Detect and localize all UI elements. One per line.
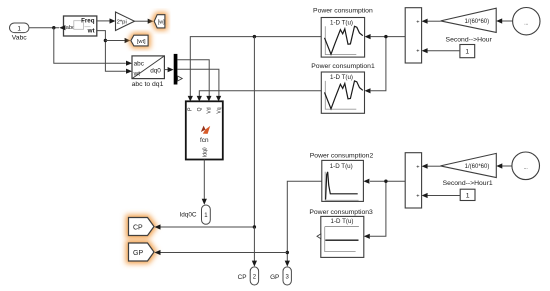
wire: CP vertical <box>253 37 255 227</box>
wire: sum1 output to lookups <box>370 37 405 91</box>
svg-text:GP: GP <box>133 250 143 257</box>
wire: constant2 to sum2 <box>427 195 460 197</box>
gain 1/(60*60) top <box>441 8 497 32</box>
output port 3 GP <box>270 267 291 285</box>
svg-text:wt: wt <box>87 28 95 35</box>
svg-text:+: + <box>416 164 419 170</box>
wire: lookup1 output to fcn P, with CP branch <box>190 37 321 97</box>
wire: demux out1 to fcn Vd <box>177 60 209 96</box>
highlight glow for goto [w] <box>154 15 165 28</box>
wire: 2*pi to [w] tag <box>135 20 149 22</box>
wire: fcn out to port 1 <box>203 160 205 200</box>
goto tag CP <box>129 218 155 236</box>
svg-text:1-D T(u): 1-D T(u) <box>330 19 353 26</box>
svg-text:+: + <box>416 194 419 200</box>
wire: GP net from lookup3 output <box>287 181 322 261</box>
svg-text:Power consumption3: Power consumption3 <box>309 209 373 216</box>
wire: dq0 out to demux <box>164 69 168 71</box>
clock block (bottom) <box>512 152 540 180</box>
svg-text:1: 1 <box>466 193 470 200</box>
node: lookup input junction top <box>384 35 387 38</box>
svg-text:Idq0C: Idq0C <box>179 212 196 219</box>
wire: gain2 to sum2 <box>427 165 440 167</box>
wire: gain1 to sum1 <box>427 20 440 22</box>
sum block 1 <box>405 8 427 63</box>
svg-text:[w]: [w] <box>158 19 165 25</box>
highlight glow for goto CP <box>129 218 155 236</box>
svg-text:1/(60*60): 1/(60*60) <box>464 19 489 25</box>
wire: sum2 output to lookups <box>370 181 405 236</box>
node: lookup input junction bottom <box>384 180 387 183</box>
svg-text:abc: abc <box>134 60 145 67</box>
sum block 2 <box>405 153 427 208</box>
svg-text:dq0: dq0 <box>150 68 161 75</box>
lookup table Power consumption2 <box>310 152 374 201</box>
node: Vabc junction <box>52 26 55 29</box>
wire: GP horizontal to tag <box>160 252 287 254</box>
abc to dq1 transform block <box>126 56 164 88</box>
wire: constant1 to sum1 <box>427 50 460 52</box>
svg-text:+: + <box>416 19 419 25</box>
highlight glow for goto GP <box>129 243 155 261</box>
input port 1 Vabc <box>10 23 30 42</box>
svg-text:Vabc: Vabc <box>12 35 28 42</box>
svg-text:1-D T(u): 1-D T(u) <box>330 163 353 170</box>
svg-text:Freq: Freq <box>81 17 95 24</box>
MATLAB function block fcn <box>186 96 223 160</box>
svg-text:1-D T(u): 1-D T(u) <box>331 218 354 225</box>
wire: Vabc branch down to abc input <box>54 28 126 64</box>
svg-text:wt: wt <box>133 70 141 77</box>
svg-text:...: ... <box>524 21 528 27</box>
output port 2 CP <box>238 267 259 285</box>
svg-text:+: + <box>416 49 419 55</box>
svg-text:...: ... <box>524 165 528 171</box>
svg-text:1: 1 <box>17 26 21 33</box>
goto tag [w] <box>154 15 165 28</box>
svg-text:1-D T(u): 1-D T(u) <box>330 74 353 81</box>
lookup table Power consumption <box>313 8 373 58</box>
MATLAB logo <box>201 126 206 132</box>
svg-text:[wt]: [wt] <box>137 39 146 45</box>
svg-text:Power consumption: Power consumption <box>313 8 373 15</box>
svg-text:GP: GP <box>270 274 279 281</box>
svg-text:Vq: Vq <box>216 107 222 113</box>
demux <box>174 54 183 85</box>
svg-text:2*pi: 2*pi <box>117 19 127 25</box>
node: GP T junction <box>286 251 289 254</box>
node: CP branch junction <box>253 35 256 38</box>
node: wt junction <box>104 39 107 42</box>
svg-text:Idq0: Idq0 <box>202 147 208 157</box>
lookup table Power consumption3 <box>309 209 373 258</box>
svg-text:CP: CP <box>238 274 247 281</box>
wire: CP horizontal to tag <box>160 226 254 228</box>
svg-text:Q: Q <box>197 107 203 111</box>
lookup table Power consumption1 <box>311 63 375 113</box>
goto tag GP <box>129 243 155 261</box>
svg-text:CP: CP <box>133 224 143 231</box>
svg-text:abc to dq1: abc to dq1 <box>132 81 164 88</box>
wire: CP down to port 2 <box>253 227 255 261</box>
wire: lookup2 output to fcn Q <box>199 91 321 96</box>
constant 1 (bottom) <box>460 189 475 200</box>
svg-text:Second-->Hour: Second-->Hour <box>446 36 493 43</box>
clock block (top) <box>513 8 540 35</box>
svg-text:fcn: fcn <box>200 137 209 144</box>
goto tag [wt] <box>131 35 148 46</box>
gain 2*pi <box>116 12 135 31</box>
highlight glow for goto [wt] <box>131 35 148 46</box>
wire: Vabc main line <box>29 27 59 29</box>
wire: clock2 to gain2 <box>502 165 512 167</box>
wire: clock1 to gain1 <box>502 20 513 22</box>
gain 1/(60*60) bottom <box>441 153 497 177</box>
constant 1 (top) <box>460 45 475 58</box>
svg-text:Power consumption2: Power consumption2 <box>310 152 374 159</box>
wire: wt to goto tag <box>105 40 124 42</box>
three-phase PLL block Freq/wt <box>59 16 97 36</box>
wire: Freq out to 2*pi gain <box>97 20 110 22</box>
wire: demux out2 to fcn Vq <box>177 69 219 96</box>
wire: wt out, corner down <box>97 31 126 72</box>
svg-text:Power consumption1: Power consumption1 <box>311 63 375 70</box>
svg-text:1/(60*60): 1/(60*60) <box>465 164 490 170</box>
node: CP T junction <box>253 225 256 228</box>
output port 1 Idq0C <box>179 205 210 224</box>
svg-text:Vd: Vd <box>207 107 213 113</box>
svg-text:Second-->Hour1: Second-->Hour1 <box>443 180 493 187</box>
svg-text:1: 1 <box>465 49 469 56</box>
